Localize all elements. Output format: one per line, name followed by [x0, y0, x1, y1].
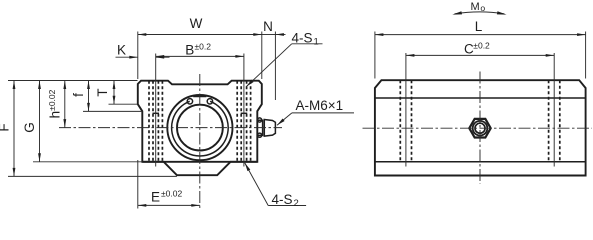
C dimension [406, 41, 554, 57]
T dimension [95, 81, 138, 105]
top shoulder line [375, 97, 586, 99]
svg-text:f: f [71, 93, 86, 97]
right hole centerline side view [553, 53, 555, 167]
svg-text:M: M [471, 1, 480, 13]
retaining ring eye right [207, 99, 212, 104]
svg-text:±0.2: ±0.2 [195, 42, 212, 52]
grease nipple ring outer [473, 121, 488, 136]
ring gap chord [193, 96, 206, 98]
horizontal centerline side [363, 127, 593, 129]
left hole centerline side view [405, 53, 407, 167]
block outline side view [375, 80, 586, 175]
left hole centerline [155, 54, 157, 167]
grease nipple head [264, 120, 275, 137]
right hole hidden lines side view [549, 80, 560, 162]
svg-text:o: o [480, 3, 485, 13]
shared top extension line left stack [8, 80, 138, 82]
svg-text:L: L [475, 19, 483, 34]
L dimension [375, 19, 586, 78]
bottom shoulder line [375, 161, 586, 163]
A-M6x1 leader [277, 98, 354, 125]
retaining ring circle (with top gap) [172, 101, 229, 156]
left hole hidden lines side view [400, 80, 411, 162]
svg-text:F: F [0, 123, 12, 131]
svg-text:E: E [151, 189, 160, 204]
svg-text:4-S: 4-S [272, 192, 293, 207]
F dimension [0, 81, 177, 177]
retaining ring eye left [187, 99, 192, 104]
svg-text:A-M6×1: A-M6×1 [296, 98, 344, 113]
B dimension [156, 42, 244, 58]
block outline front view [138, 81, 262, 176]
K dimension [116, 43, 170, 59]
svg-text:2: 2 [294, 198, 299, 209]
grease nipple base column [257, 120, 262, 135]
grease nipple ring inner [475, 123, 485, 133]
vertical centerline front [199, 74, 201, 209]
svg-text:±0.02: ±0.02 [161, 189, 182, 199]
svg-text:G: G [22, 122, 37, 133]
body bottom edge line [142, 161, 257, 163]
horizontal centerline front [59, 127, 282, 129]
bore outer circle [167, 95, 232, 160]
h dimension [47, 81, 66, 128]
svg-text:B: B [185, 42, 194, 57]
f dimension [71, 81, 142, 112]
svg-text:W: W [190, 16, 203, 31]
vertical centerline side [479, 72, 481, 185]
right mounting hole hidden lines [237, 81, 250, 162]
svg-text:K: K [117, 43, 126, 58]
svg-text:T: T [95, 88, 110, 96]
G dimension [22, 81, 142, 162]
W dimension [138, 16, 262, 79]
4-S2 leader [245, 163, 306, 209]
right hole centerline [243, 54, 245, 167]
E dimension [138, 160, 200, 209]
M0 moment arrow [452, 1, 506, 14]
svg-text:1: 1 [314, 36, 319, 47]
svg-text:4-S: 4-S [292, 30, 313, 45]
grease nipple hex [469, 119, 490, 138]
left mounting hole hidden lines [149, 81, 162, 162]
svg-text:N: N [263, 19, 273, 34]
grease nipple base circles [258, 118, 262, 122]
4-S1 leader [246, 30, 322, 86]
N dimension [262, 19, 286, 100]
bore inner circle [177, 105, 223, 151]
svg-text:±0.2: ±0.2 [473, 41, 490, 51]
